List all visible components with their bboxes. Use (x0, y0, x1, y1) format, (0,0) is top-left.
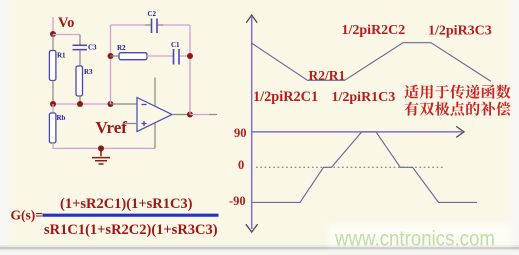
resistor R3 (76, 66, 83, 96)
resistor R1 (49, 51, 56, 81)
node Vo (50, 31, 56, 37)
wire op-amp output pin (172, 114, 190, 116)
svg-text:C1: C1 (171, 41, 180, 49)
svg-text:C3: C3 (88, 44, 97, 52)
capacitor C3 (73, 45, 88, 49)
wire R3 to node (79, 96, 81, 104)
phase curve (252, 132, 477, 203)
capacitor C2 (152, 19, 158, 34)
chinese line 1 (404, 85, 418, 99)
wire output stub gray (209, 114, 217, 116)
op-amp U1 (137, 98, 172, 132)
svg-text:sR1C1(1+sR2C2)(1+sR3C3): sR1C1(1+sR2C2)(1+sR3C3) (44, 222, 218, 238)
node R2/C2 (108, 53, 114, 59)
capacitor C1 (174, 49, 180, 65)
wire right column (189, 25, 191, 115)
wire C2 right (163, 24, 190, 26)
svg-text:R2/R1: R2/R1 (309, 68, 346, 83)
chinese line 2 (404, 102, 418, 116)
svg-text:Vo: Vo (58, 15, 74, 31)
wire Vo stub (52, 17, 54, 34)
svg-text:1/2piR3C3: 1/2piR3C3 (428, 24, 492, 39)
bode x-axis (+90 line) (252, 131, 462, 133)
svg-text:R2: R2 (117, 44, 126, 52)
zero dashed line (256, 166, 444, 168)
wire Vo node to C3 branch (53, 34, 80, 36)
svg-text:C2: C2 (148, 10, 157, 18)
svg-text:-90: -90 (229, 194, 246, 208)
wire R1 to node (52, 81, 54, 105)
wire Rb to ground rail (53, 143, 155, 148)
node C1/column (187, 53, 193, 59)
wire op-amp V- pin (154, 123, 156, 149)
wire C2 left (111, 24, 146, 26)
wire R2 to C1 (147, 55, 173, 57)
formula fraction bar (43, 214, 219, 217)
svg-text:R3: R3 (84, 68, 93, 76)
wire feedback column (110, 25, 112, 104)
svg-text:R1: R1 (57, 52, 66, 60)
svg-text:1/2piR2C1: 1/2piR2C1 (253, 89, 318, 105)
svg-text:G(s)=: G(s)= (11, 208, 43, 223)
svg-text:Rb: Rb (57, 114, 66, 122)
wire output (190, 114, 209, 116)
node feedback column (108, 101, 114, 107)
svg-text:1/2piR2C2: 1/2piR2C2 (342, 23, 406, 38)
ground (92, 148, 110, 164)
bode y-axis (251, 17, 253, 229)
gain curve (252, 43, 491, 82)
svg-text:0: 0 (238, 158, 244, 172)
svg-text:(1+sR2C1)(1+sR1C3): (1+sR2C1)(1+sR1C3) (60, 196, 193, 212)
wire op-amp V+ pin (154, 78, 156, 107)
svg-text:Vref: Vref (96, 118, 128, 137)
wire inverting bus (53, 103, 111, 105)
svg-text:90: 90 (234, 126, 247, 140)
resistor R2 (111, 55, 120, 57)
node ground rail (98, 145, 104, 151)
watermark backdrop (328, 224, 511, 246)
svg-text:www.cntronics.com: www.cntronics.com (334, 227, 495, 251)
resistor Rb (52, 104, 54, 113)
bottom shadow band (0, 245, 519, 255)
node R1 bottom (50, 101, 56, 107)
wire node to R1 (52, 34, 54, 51)
svg-text:1/2piR1C3: 1/2piR1C3 (332, 90, 396, 105)
wire op-amp + input (123, 123, 137, 125)
wire to op-amp inverting input (111, 103, 138, 105)
node R3 bottom (77, 101, 83, 107)
wire C1 to column (180, 55, 191, 57)
node output (187, 112, 193, 118)
